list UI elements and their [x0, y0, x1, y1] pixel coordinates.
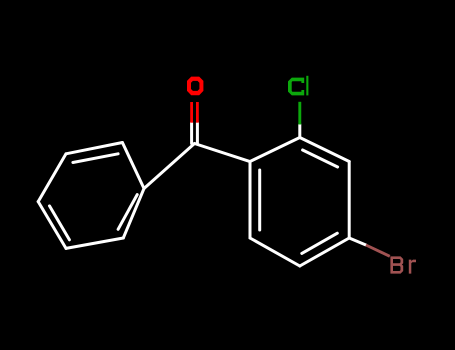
right ring edge Q1-Q2	[250, 138, 300, 162]
phenyl ring edge P6-P1	[123, 189, 144, 239]
right ring edge Q4-Q5	[300, 238, 349, 266]
phenyl ring edge P5-P6 (bottom)	[66, 238, 123, 248]
right ring aromatic inner (bottom-right edge)	[302, 233, 338, 253]
right ring aromatic inner (top-right edge)	[303, 150, 338, 167]
bond phenyl to carbonyl C	[144, 144, 195, 189]
C-Cl bond green half	[298, 102, 301, 125]
Cl atom label (bitmap-style C + l)	[288, 76, 308, 96]
Br atom label (bitmap-style B + r)	[390, 256, 416, 273]
right ring edge Q6-Q1 (left)	[249, 162, 252, 239]
C-Br bond brown half	[366, 245, 390, 256]
right ring edge Q3-Q4 (right)	[348, 162, 351, 239]
phenyl ring edge P4-P5	[38, 202, 66, 249]
phenyl aromatic inner line (top)	[73, 154, 118, 163]
right ring edge Q5-Q6	[250, 238, 300, 266]
phenyl ring edge P2-P3 (top)	[66, 143, 122, 154]
C-Cl bond white half	[298, 125, 301, 138]
C-Br bond white half	[349, 238, 366, 245]
O atom label (octagonal bitmap-style O)	[187, 77, 203, 96]
bond carbonyl C to chlorophenyl ring	[195, 144, 251, 162]
phenyl aromatic inner line (lower-left)	[50, 206, 70, 240]
phenyl ring edge P1-P2	[122, 143, 144, 189]
phenyl ring edge P3-P4	[38, 154, 66, 202]
right ring edge Q2-Q3	[300, 138, 349, 162]
right ring aromatic inner (left edge)	[258, 170, 261, 230]
C=O double bond red halves	[192, 102, 198, 123]
C=O double bond white halves	[190, 123, 193, 144]
phenyl aromatic inner line (lower-right)	[118, 195, 137, 230]
